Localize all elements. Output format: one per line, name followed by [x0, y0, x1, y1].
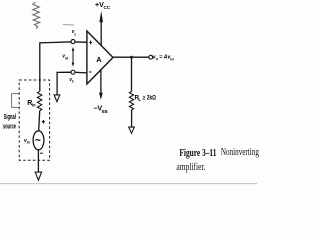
resistor RL (zigzag)	[129, 91, 133, 110]
arrowhead: +Vcc up arrow	[99, 11, 103, 22]
svg-text:Figure 3–11: Figure 3–11	[179, 148, 216, 159]
wire: v1 input wire from signal-source corner to op-amp + input	[40, 42, 87, 92]
wire: Rin bottom to vin source top	[39, 111, 40, 131]
ghost print-through: resistor squiggle top-left	[33, 2, 40, 29]
svg-text:in: in	[27, 141, 30, 145]
svg-text:CC: CC	[104, 5, 111, 10]
label: - polarity of vin	[40, 152, 43, 154]
wire: output wire from op-amp apex to output node	[112, 56, 149, 58]
arrowhead: -Vee down arrow	[99, 93, 103, 100]
svg-text:in: in	[32, 102, 36, 107]
source vin (ac source circle)	[33, 131, 44, 150]
svg-text:EE: EE	[102, 109, 108, 114]
node v2 (open circle)	[71, 70, 75, 74]
op-amp A (triangle)	[87, 31, 113, 84]
node v1 (open circle)	[71, 40, 75, 44]
wire: drop from output junction to load resistor	[131, 57, 133, 91]
node vo (open circle, output terminal)	[149, 55, 153, 59]
svg-text:A: A	[96, 55, 102, 64]
ghost print-through: box left of Rin label	[12, 94, 19, 108]
svg-text:=: =	[159, 54, 162, 60]
label: + polarity of vin	[42, 120, 45, 124]
ground (signal source)	[35, 172, 41, 180]
ground (load resistor)	[129, 127, 135, 133]
label: + input marker	[89, 41, 92, 45]
wire: vin source bottom to ground	[37, 150, 39, 172]
wire: load resistor to ground	[131, 110, 133, 127]
ghost print-through: faint rule near page bottom	[0, 183, 257, 185]
signal source dashed box	[19, 80, 49, 160]
ghost print-through: small dash near v1 wire	[63, 24, 74, 26]
wire: v2 input wire from ground corner to op-amp - input	[57, 72, 87, 95]
junction dot at output	[130, 56, 133, 59]
svg-text:≥ 2kΩ: ≥ 2kΩ	[143, 95, 156, 101]
ground (v2 / noninverting reference)	[54, 95, 60, 102]
svg-text:2: 2	[72, 80, 74, 84]
vid double-headed arrow between v1 and v2	[72, 47, 75, 67]
svg-text:amplifier.: amplifier.	[176, 162, 205, 173]
svg-text:id: id	[65, 57, 68, 61]
resistor Rin (zigzag)	[37, 91, 41, 110]
wire: +Vcc supply line into op-amp top edge	[100, 21, 102, 50]
svg-text:source: source	[3, 124, 16, 131]
wire: -Vee supply line from op-amp bottom edge	[100, 64, 102, 93]
svg-text:Signal: Signal	[4, 114, 16, 121]
label: ~ inside source	[36, 139, 41, 140]
svg-text:L: L	[138, 97, 141, 102]
svg-text:Noninverting: Noninverting	[221, 147, 259, 158]
label: - input marker	[89, 71, 92, 73]
svg-text:1: 1	[74, 33, 76, 37]
